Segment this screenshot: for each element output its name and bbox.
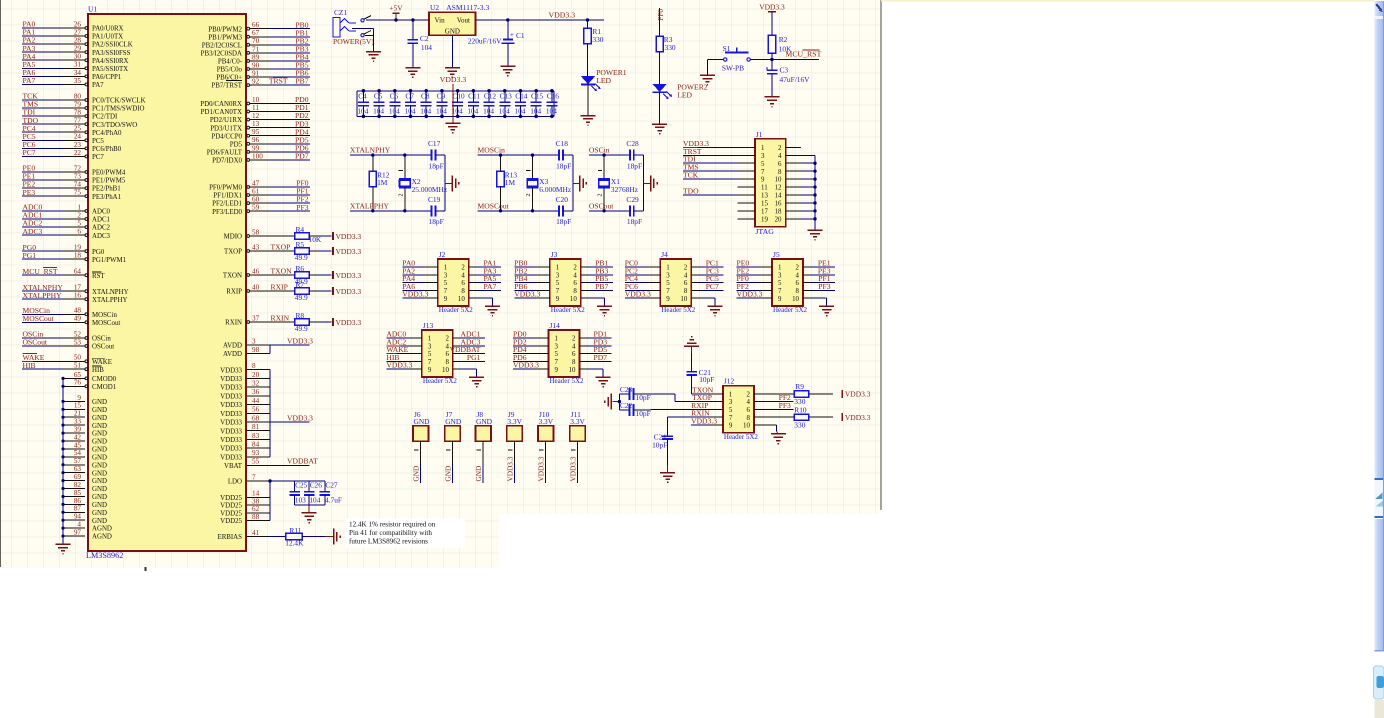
pin 17 (XTALNPHY) (22, 284, 129, 296)
svg-text:57: 57 (74, 457, 82, 465)
svg-text:95: 95 (252, 128, 260, 136)
svg-text:87: 87 (74, 505, 82, 513)
wire (811, 266, 836, 268)
pin 74 (PE2/PhB1) (22, 181, 121, 193)
svg-text:PG0: PG0 (92, 249, 105, 256)
svg-text:29: 29 (74, 45, 82, 53)
svg-text:XTALPPHY: XTALPPHY (23, 291, 63, 300)
svg-text:13: 13 (252, 120, 260, 128)
svg-text:VDD25: VDD25 (220, 503, 242, 510)
svg-text:13: 13 (761, 193, 768, 200)
net label ADC1 (23, 211, 43, 220)
net label RXIN (691, 409, 710, 418)
junction (61, 439, 64, 442)
pin 68 (VDD33) (220, 414, 270, 426)
connector J10 (538, 410, 554, 464)
svg-text:VDD3.3: VDD3.3 (691, 417, 717, 426)
net label VDD3.3 (537, 456, 546, 481)
svg-text:9: 9 (444, 296, 448, 303)
pin 6 (573, 280, 588, 287)
svg-text:83: 83 (252, 432, 260, 440)
net label PD0 (513, 330, 527, 339)
pin 94 (GND) (63, 513, 107, 525)
svg-text:XTALNPHY: XTALNPHY (350, 146, 391, 155)
svg-text:28: 28 (74, 37, 82, 45)
svg-text:10K: 10K (779, 45, 792, 54)
pin 5 (423, 280, 448, 287)
svg-text:8: 8 (778, 169, 782, 176)
svg-text:32: 32 (252, 380, 260, 388)
svg-text:32768Hz: 32768Hz (611, 185, 639, 194)
wire OSCout rail (589, 210, 630, 212)
svg-text:10: 10 (792, 296, 799, 303)
pin 18 (775, 209, 801, 216)
svg-text:3: 3 (761, 153, 765, 160)
wire (309, 250, 318, 252)
svg-text:VDD3.3: VDD3.3 (287, 336, 313, 345)
svg-text:22: 22 (74, 149, 82, 157)
wire (514, 266, 535, 268)
svg-text:49.9: 49.9 (295, 324, 308, 333)
pin 36 (VDD33) (220, 388, 270, 400)
wire (476, 289, 501, 291)
svg-text:VDD3.3: VDD3.3 (549, 11, 576, 20)
pin 4 (445, 343, 460, 350)
svg-text:VDD3.3: VDD3.3 (506, 456, 515, 481)
junction (472, 89, 476, 93)
svg-text:C5: C5 (374, 92, 383, 101)
svg-text:PC1/TMS/SWDIO: PC1/TMS/SWDIO (92, 106, 144, 113)
pin 85 (GND) (63, 489, 107, 501)
resistor R8 (295, 311, 310, 333)
net label PB0 (514, 259, 527, 268)
pin 7 (758, 288, 783, 295)
pin 65 (CMOD0) (63, 371, 117, 383)
wire (761, 408, 781, 410)
junction (503, 115, 507, 119)
net label XTALNPHY (350, 146, 391, 155)
svg-text:9: 9 (666, 296, 670, 303)
net label TRST (683, 147, 702, 156)
svg-text:J5: J5 (773, 250, 780, 259)
svg-text:J4: J4 (661, 250, 668, 259)
svg-text:18pF: 18pF (556, 161, 571, 170)
ground (445, 123, 460, 133)
net label ADC0 (23, 203, 43, 212)
svg-text:GND: GND (92, 423, 107, 430)
junction (550, 89, 554, 93)
resistor R12 (369, 155, 390, 211)
net label ADC3 (23, 227, 43, 236)
svg-text:63: 63 (74, 465, 82, 473)
net label PB6 (514, 282, 527, 291)
svg-text:4: 4 (746, 399, 750, 406)
svg-text:71: 71 (252, 45, 260, 53)
net label PA6 (23, 68, 36, 77)
svg-text:C19: C19 (428, 195, 441, 204)
wire (319, 321, 332, 323)
svg-text:8: 8 (796, 288, 800, 295)
wire (811, 274, 836, 276)
wire (402, 282, 423, 284)
pin 47 (PF0/PWM0) (209, 179, 310, 191)
svg-text:8: 8 (461, 288, 465, 295)
wire (659, 52, 661, 84)
wire (801, 170, 815, 172)
junction (61, 495, 64, 498)
pin 90 (PB5/C0o) (217, 61, 310, 73)
resistor R13 (497, 155, 518, 211)
ground (445, 68, 460, 78)
svg-text:PC7: PC7 (92, 154, 104, 161)
pin 1 (ADC0) (22, 203, 111, 215)
svg-text:19: 19 (74, 244, 82, 252)
pin 3 (535, 272, 560, 279)
net label ADC3 (461, 337, 481, 346)
net label TXOP (692, 393, 712, 402)
junction (393, 115, 397, 119)
svg-text:PC7: PC7 (706, 282, 719, 291)
pin 3 (708, 399, 733, 406)
net label PC7 (23, 148, 36, 157)
svg-text:VDD33: VDD33 (220, 411, 242, 418)
net label TDI (23, 108, 36, 117)
svg-text:10: 10 (458, 296, 465, 303)
wire (634, 409, 643, 411)
pin 83 (VDD33) (220, 432, 270, 444)
junction (813, 185, 816, 188)
net label PA7 (23, 76, 36, 85)
svg-text:PD2/U1RX: PD2/U1RX (210, 117, 242, 124)
net label PD3 (593, 337, 607, 346)
wire (699, 274, 724, 276)
wire (386, 345, 407, 347)
svg-text:16: 16 (775, 201, 782, 208)
wire (325, 536, 334, 538)
svg-text:+5V: +5V (389, 3, 403, 12)
svg-text:58: 58 (252, 228, 260, 236)
svg-text:VDD33: VDD33 (220, 376, 242, 383)
junction (61, 416, 64, 419)
svg-text:Header 5X2: Header 5X2 (550, 377, 585, 385)
svg-text:PA1/U0TX: PA1/U0TX (92, 34, 123, 41)
net label VDD3.3 (513, 361, 539, 370)
svg-text:104: 104 (421, 43, 432, 52)
svg-text:1: 1 (666, 265, 670, 272)
svg-text:10pF: 10pF (636, 393, 651, 402)
svg-text:2: 2 (572, 336, 576, 343)
svg-text:104: 104 (483, 107, 494, 116)
svg-text:J1: J1 (756, 130, 763, 139)
net label OSCin (589, 146, 610, 155)
svg-text:18pF: 18pF (627, 217, 642, 226)
net label TXON (271, 266, 293, 275)
pin 2 (746, 391, 761, 398)
wire (460, 345, 485, 347)
svg-text:31: 31 (74, 61, 82, 69)
wire (460, 368, 476, 370)
capacitor C23 (619, 385, 650, 402)
svg-text:7: 7 (252, 473, 256, 481)
svg-text:5: 5 (666, 280, 670, 287)
connector J2 (438, 250, 474, 314)
svg-text:14: 14 (775, 193, 782, 200)
wire (460, 360, 485, 362)
pin 75 (PE3/PhA1) (22, 189, 122, 201)
wire (587, 353, 612, 355)
svg-text:ADC0: ADC0 (92, 209, 111, 216)
resistor R5 (295, 240, 310, 262)
ground (302, 513, 317, 523)
resistor R2 (768, 35, 792, 54)
net label GND (412, 466, 421, 482)
wire (683, 146, 738, 148)
pin 53 (OSCout) (22, 338, 114, 350)
svg-text:GND: GND (92, 494, 107, 501)
net label TCK (23, 92, 39, 101)
svg-text:VDD33: VDD33 (220, 428, 242, 435)
pin 78 (PC2/TDI) (22, 109, 118, 121)
pin 20 (VDD33) (220, 371, 270, 383)
junction (531, 209, 534, 212)
wire (352, 27, 374, 29)
net label ADC2 (23, 219, 43, 228)
svg-text:PB5/C0o: PB5/C0o (217, 67, 243, 74)
pin 3 (534, 343, 559, 350)
svg-text:VDD25: VDD25 (220, 495, 242, 502)
svg-text:ADC2: ADC2 (92, 225, 111, 232)
svg-text:1: 1 (444, 265, 448, 272)
wire (588, 289, 613, 291)
svg-text:92: 92 (252, 78, 260, 86)
pin 4 (778, 153, 801, 160)
ground (469, 377, 484, 387)
svg-text:7: 7 (761, 169, 765, 176)
ground (700, 75, 715, 85)
power VDD3.3 (333, 232, 361, 241)
svg-text:C8: C8 (421, 92, 430, 101)
svg-text:3: 3 (778, 272, 782, 279)
svg-text:VDD25: VDD25 (220, 518, 242, 525)
junction (487, 115, 491, 119)
wire (365, 34, 374, 36)
svg-text:1M: 1M (505, 178, 516, 187)
svg-text:VDD3.3: VDD3.3 (513, 361, 539, 370)
svg-text:VDD33: VDD33 (220, 454, 242, 461)
net label PC3 (706, 266, 719, 275)
svg-text:330: 330 (592, 35, 603, 44)
svg-text:104: 104 (357, 107, 368, 116)
pin 4 (796, 272, 811, 279)
pin 93 (VDD33) (220, 449, 270, 461)
pin 77 (PC3/TDO/SWO) (22, 117, 137, 129)
svg-text:GND: GND (92, 399, 107, 406)
svg-text:26: 26 (74, 20, 82, 28)
svg-text:6.000MHz: 6.000MHz (539, 185, 572, 194)
junction (61, 385, 64, 388)
net label PA6 (402, 282, 415, 291)
svg-text:3.3V: 3.3V (570, 417, 585, 426)
svg-text:1: 1 (555, 336, 559, 343)
connector CZ1 power jack (333, 8, 374, 46)
svg-text:LDO: LDO (228, 479, 242, 486)
svg-text:PA0/U0RX: PA0/U0RX (92, 26, 124, 33)
svg-text:VDD33: VDD33 (220, 393, 242, 400)
connector J3 (550, 250, 586, 314)
net label PD5 (593, 345, 607, 354)
pin 31 (PA5/SSI0TX) (22, 61, 128, 73)
pin 6 (572, 351, 587, 358)
ground (708, 306, 723, 316)
net label MOSCout (23, 314, 55, 323)
scrollbar thumb lower (1375, 519, 1384, 651)
pin 10 (458, 296, 476, 303)
capacitor C5 (373, 91, 385, 117)
svg-text:PE1/PWM5: PE1/PWM5 (92, 178, 126, 185)
svg-text:POWER(5V): POWER(5V) (333, 37, 374, 46)
wire (692, 393, 709, 395)
pin 40 (RXIP) (226, 283, 294, 295)
capacitor C28 (626, 139, 642, 170)
junction (602, 209, 605, 212)
wire (761, 416, 781, 418)
wire (270, 464, 310, 466)
junction (499, 153, 502, 156)
svg-text:18: 18 (775, 209, 782, 216)
svg-text:PB7: PB7 (595, 282, 608, 291)
wire (618, 394, 620, 410)
net label PE3 (818, 266, 831, 275)
svg-text:78: 78 (74, 109, 82, 117)
svg-text:75: 75 (74, 189, 82, 197)
pin 2 (572, 336, 587, 343)
svg-text:59: 59 (252, 204, 260, 212)
wire (699, 282, 724, 284)
net label OSCout (589, 201, 614, 210)
svg-text:7: 7 (428, 359, 432, 366)
svg-text:3: 3 (729, 399, 733, 406)
svg-text:R6: R6 (296, 264, 305, 273)
pin 98 (AVDD) (223, 346, 270, 358)
wire (675, 401, 708, 403)
svg-text:TCK: TCK (683, 171, 699, 180)
svg-text:79: 79 (74, 100, 82, 108)
pin 7 (646, 288, 671, 295)
svg-text:VDD3.3: VDD3.3 (845, 390, 871, 399)
wire (476, 266, 501, 268)
svg-text:9: 9 (77, 394, 81, 402)
pin 92 (PB7/TRST) (211, 78, 310, 90)
svg-text:18pF: 18pF (429, 217, 444, 226)
svg-text:21: 21 (74, 410, 82, 418)
junction (362, 89, 366, 93)
pin 15 (GND) (63, 402, 107, 414)
wire (513, 345, 534, 347)
wire (588, 266, 613, 268)
svg-text:AGND: AGND (92, 534, 112, 541)
svg-text:1M: 1M (377, 178, 388, 187)
net label PE0 (23, 164, 36, 173)
wire decap top rail (357, 90, 554, 92)
svg-text:99: 99 (252, 144, 260, 152)
wire (777, 432, 779, 434)
svg-text:C15: C15 (531, 92, 544, 101)
svg-text:C23: C23 (620, 385, 633, 394)
ground (597, 306, 612, 316)
pin 6 (746, 407, 761, 414)
svg-text:8: 8 (746, 415, 750, 422)
svg-text:66: 66 (252, 21, 260, 29)
svg-text:VDD33: VDD33 (220, 437, 242, 444)
svg-text:2: 2 (526, 194, 532, 197)
junction (61, 455, 64, 458)
svg-text:Header 5X2: Header 5X2 (661, 306, 696, 314)
wire (826, 298, 828, 306)
net label PC2 (625, 266, 638, 275)
svg-text:GND: GND (412, 466, 421, 482)
svg-text:PD3/U1TX: PD3/U1TX (210, 125, 242, 132)
capacitor C14 (515, 91, 528, 117)
power VDD3.3 (842, 413, 870, 422)
svg-text:VDD33: VDD33 (220, 367, 242, 374)
wire (801, 202, 815, 204)
svg-text:1: 1 (729, 391, 733, 398)
net label PB5 (295, 61, 308, 70)
svg-text:GND: GND (92, 447, 107, 454)
svg-text:XTALNPHY: XTALNPHY (92, 289, 129, 296)
net label PG1 (23, 251, 37, 260)
wire (435, 154, 445, 156)
svg-text:J3: J3 (551, 250, 558, 259)
svg-text:4: 4 (796, 272, 800, 279)
net label VDD3.3 (683, 139, 709, 148)
pin 22 (PC7) (22, 149, 104, 161)
svg-text:AVDD: AVDD (223, 351, 242, 358)
svg-text:OSCin: OSCin (589, 146, 610, 155)
pin 7 (738, 169, 766, 176)
svg-text:CMOD0: CMOD0 (92, 376, 117, 383)
net label PD4 (295, 127, 309, 136)
svg-text:C28: C28 (626, 139, 639, 148)
wire (402, 289, 423, 291)
svg-text:R5: R5 (296, 240, 305, 249)
pin 9 (758, 296, 783, 303)
wire (302, 536, 325, 538)
pin 5 (534, 351, 559, 358)
svg-text:PA7: PA7 (23, 76, 36, 85)
svg-text:2: 2 (445, 336, 449, 343)
pin 9 (534, 367, 559, 374)
net label PD5 (295, 135, 309, 144)
wire (644, 182, 651, 184)
junction (377, 89, 381, 93)
pin 16 (XTALPPHY) (22, 292, 127, 304)
svg-text:91: 91 (252, 69, 260, 77)
wire (514, 297, 535, 299)
svg-text:17: 17 (74, 284, 82, 292)
wire (451, 464, 453, 483)
pin 95 (PD4/CCP0) (211, 128, 310, 140)
svg-text:GND: GND (92, 510, 107, 517)
junction (61, 534, 64, 537)
net label PF2 (779, 393, 791, 402)
GND bus wire (62, 378, 64, 544)
net label PE1 (818, 259, 831, 268)
pin 35 (PA7) (22, 77, 104, 89)
pin 5 (407, 351, 432, 358)
pin 1 (534, 336, 559, 343)
wire (699, 266, 724, 268)
